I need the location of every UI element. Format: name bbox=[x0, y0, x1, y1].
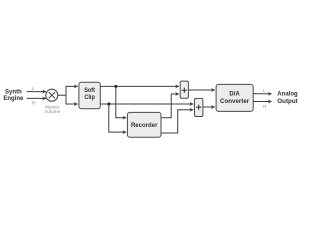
multiplier (Master Volume) circle with X bbox=[46, 89, 58, 101]
wire L input bbox=[27, 91, 46, 93]
svg-text:D/A: D/A bbox=[229, 90, 240, 97]
svg-text:R: R bbox=[32, 100, 36, 106]
block Recorder bbox=[127, 112, 161, 137]
wire L tap to Recorder input 1 bbox=[116, 86, 126, 117]
wire multiplier output split to Soft Clip L bbox=[58, 86, 78, 95]
svg-text:Output: Output bbox=[277, 98, 298, 105]
wire summer 1 output to D/A bbox=[188, 89, 214, 91]
wire Recorder output 1 to summer 1 bbox=[161, 94, 179, 118]
svg-text:Soft: Soft bbox=[84, 87, 96, 94]
wire multiplier output split to Soft Clip R bbox=[66, 95, 78, 104]
svg-text:L: L bbox=[263, 88, 266, 94]
svg-text:Volume: Volume bbox=[44, 109, 60, 115]
svg-text:Engine: Engine bbox=[3, 95, 23, 102]
wire R tap to Recorder input 2 bbox=[109, 104, 126, 132]
wire D/A output L bbox=[253, 93, 271, 95]
node Synth Engine label bbox=[3, 88, 23, 102]
wire summer 2 output to D/A bbox=[203, 106, 215, 108]
wire R input bbox=[27, 97, 46, 99]
svg-text:Clip: Clip bbox=[84, 94, 95, 101]
wire Soft Clip L output rail to summer 1 bbox=[100, 85, 179, 87]
summer (adder) 1 bbox=[180, 81, 188, 98]
block Soft Clip bbox=[79, 82, 100, 108]
wire Recorder output 2 to summer 2 bbox=[161, 110, 193, 133]
wire Soft Clip R output rail to summer 2 bbox=[100, 103, 193, 105]
svg-text:Converter: Converter bbox=[220, 98, 250, 105]
svg-text:Recorder: Recorder bbox=[131, 122, 158, 129]
summer (adder) 2 bbox=[195, 98, 203, 116]
svg-text:Analog: Analog bbox=[277, 91, 298, 98]
wire D/A output R bbox=[253, 101, 271, 103]
block D/A Converter bbox=[216, 84, 253, 111]
junction dot on L rail bbox=[114, 85, 117, 88]
node Analog Output label bbox=[277, 91, 298, 106]
label Master Volume bbox=[44, 104, 60, 115]
svg-text:R: R bbox=[263, 104, 267, 110]
svg-text:L: L bbox=[32, 86, 35, 92]
junction dot on R rail bbox=[107, 103, 110, 106]
